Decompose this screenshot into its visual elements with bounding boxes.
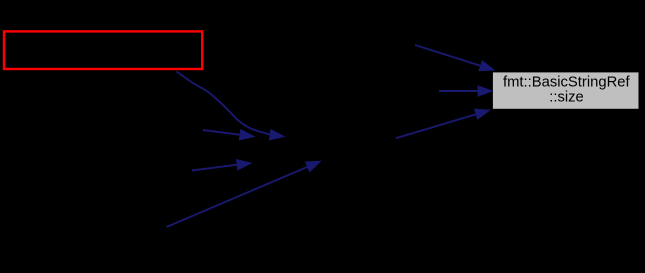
edge f: horizontal arrow into size node — [439, 86, 492, 96]
edge a: curve from red node down-right — [177, 72, 285, 140]
edge c: short arrow slightly upward — [192, 160, 251, 171]
svg-text:fmt::BasicStringRef: fmt::BasicStringRef — [503, 75, 631, 91]
edge b: short arrow to middle node — [203, 130, 254, 140]
edge e: arrow into top-left of size node — [415, 45, 494, 71]
edge d: long arrow from bottom-left — [167, 161, 321, 227]
edge g: arrow into bottom-left of size node — [396, 109, 490, 138]
node: red-bordered caller node (label hidden on black) — [4, 31, 202, 69]
svg-text:::size: ::size — [549, 90, 584, 106]
node: fmt::BasicStringRef::size (gray filled) — [492, 72, 639, 109]
